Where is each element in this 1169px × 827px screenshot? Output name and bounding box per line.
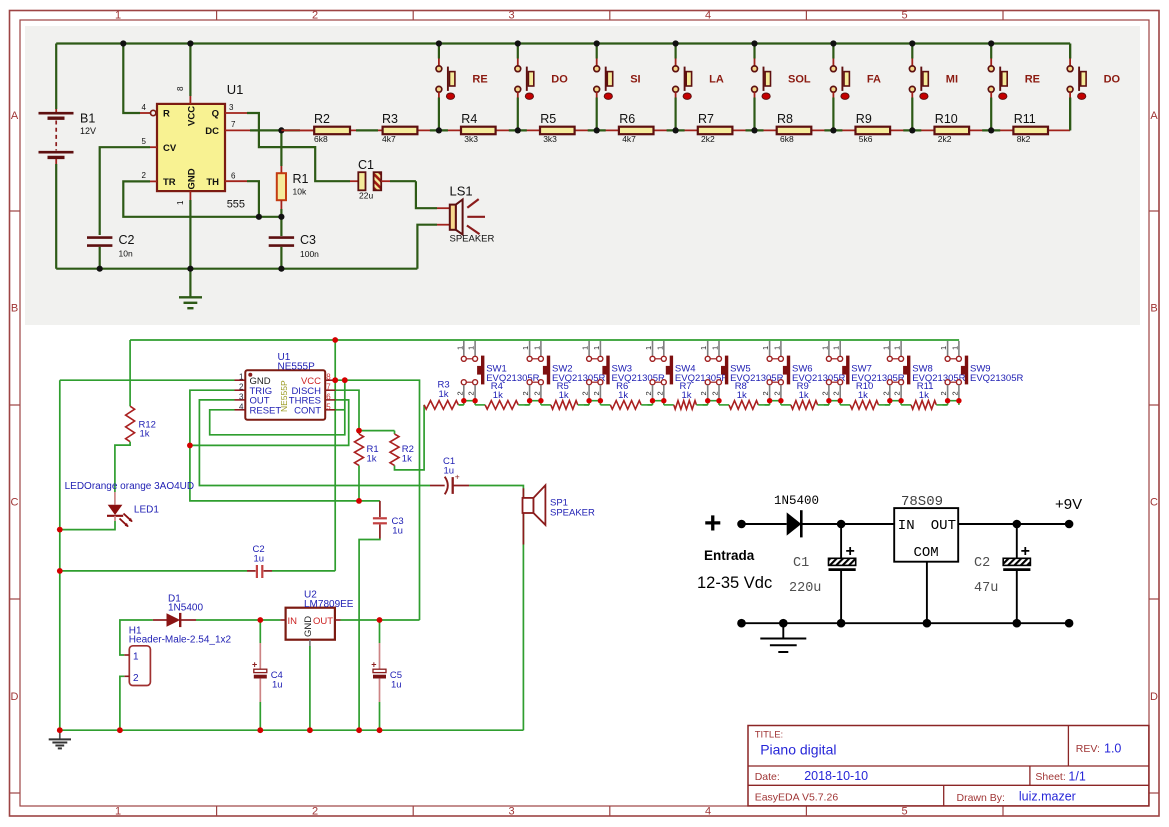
svg-text:1k: 1k	[493, 390, 503, 401]
op-amp / timer U1 555	[157, 104, 225, 191]
svg-text:1k: 1k	[618, 390, 628, 401]
wire R1 bottom	[358, 465, 360, 501]
svg-text:R11: R11	[1014, 112, 1036, 126]
junction	[256, 214, 262, 220]
actuator	[907, 356, 910, 385]
junction	[515, 127, 521, 133]
wire R1 R2 top link	[359, 430, 395, 432]
svg-text:1k: 1k	[682, 390, 692, 401]
svg-text:1: 1	[176, 200, 185, 205]
svg-text:RESET: RESET	[250, 405, 282, 416]
junction	[898, 398, 903, 403]
wire C1 to speaker	[416, 181, 437, 208]
svg-text:3: 3	[508, 10, 514, 22]
svg-text:Entrada: Entrada	[704, 548, 755, 563]
wire GND pin1	[189, 191, 191, 200]
wire DISCH	[336, 390, 360, 430]
sound wave	[467, 199, 478, 208]
junction	[779, 619, 788, 628]
svg-text:8: 8	[176, 86, 185, 91]
svg-text:1k: 1k	[439, 389, 449, 400]
junction	[472, 398, 477, 403]
regulator U2 LM7809EE	[286, 608, 335, 640]
junction	[187, 266, 193, 272]
switch SW7 EVQ21305R	[828, 341, 830, 356]
junction	[461, 398, 466, 403]
svg-text:Sheet:: Sheet:	[1035, 771, 1065, 783]
svg-text:1: 1	[581, 346, 590, 350]
pin 4	[235, 409, 246, 411]
resistor R7 1k	[664, 404, 674, 406]
junction	[988, 127, 994, 133]
pin 3	[235, 399, 246, 401]
svg-text:SPEAKER: SPEAKER	[450, 234, 495, 245]
svg-text:Header-Male-2.54_1x2: Header-Male-2.54_1x2	[129, 635, 232, 646]
svg-text:4: 4	[239, 402, 244, 411]
svg-text:2: 2	[950, 391, 959, 395]
resistor R2 1k	[390, 434, 399, 465]
svg-text:+: +	[455, 471, 460, 481]
svg-text:2: 2	[832, 391, 841, 395]
svg-text:1/1: 1/1	[1068, 770, 1085, 784]
wire	[958, 523, 1069, 525]
pin GND	[309, 640, 311, 646]
wire ground rail	[56, 268, 417, 270]
svg-text:D: D	[11, 691, 19, 703]
svg-text:2: 2	[939, 391, 948, 395]
svg-text:2: 2	[521, 391, 530, 395]
svg-text:1k: 1k	[919, 390, 929, 401]
svg-text:1: 1	[772, 346, 781, 350]
wire vcc pin8	[189, 44, 191, 97]
svg-text:R6: R6	[619, 112, 635, 126]
wire CONT stub	[336, 409, 345, 411]
wire bottom	[742, 622, 1070, 624]
junction	[705, 398, 710, 403]
capacitor C4 1u	[259, 620, 261, 643]
resistor R5 1k	[541, 404, 551, 406]
pin 1	[124, 654, 129, 656]
speaker LS1	[450, 205, 456, 230]
svg-text:2: 2	[312, 10, 318, 22]
svg-text:C: C	[1150, 497, 1158, 509]
svg-text:DO: DO	[551, 74, 568, 86]
svg-text:+: +	[1021, 543, 1030, 560]
svg-text:6k8: 6k8	[314, 134, 328, 144]
svg-text:C1: C1	[793, 556, 809, 571]
junction	[673, 40, 679, 46]
wire pin1 GND	[60, 379, 235, 381]
junction	[988, 40, 994, 46]
svg-text:2: 2	[881, 391, 890, 395]
svg-text:VCC: VCC	[187, 106, 198, 126]
junction	[117, 727, 123, 733]
resistor R8 1k	[719, 404, 729, 406]
svg-text:1: 1	[950, 346, 959, 350]
svg-text:LM7809EE: LM7809EE	[304, 599, 354, 610]
junction	[187, 40, 193, 46]
wire OUT net	[341, 619, 420, 621]
junction	[57, 527, 63, 533]
junction	[737, 619, 746, 628]
svg-text:2: 2	[893, 391, 902, 395]
junction	[187, 443, 193, 449]
svg-text:LEDOrange orange 3AO4UD: LEDOrange orange 3AO4UD	[65, 481, 195, 492]
resistor R12 1k	[129, 340, 131, 406]
svg-text:OUT: OUT	[931, 518, 956, 534]
wire C2 left	[60, 570, 247, 572]
wire OUT net	[199, 400, 430, 486]
svg-text:A: A	[1150, 110, 1158, 122]
wire LED cathode	[60, 521, 115, 530]
sound wave	[467, 226, 480, 235]
junction	[837, 520, 846, 529]
junction	[356, 428, 362, 434]
resistor R6 1k	[600, 404, 610, 406]
wire H1 pin1 to diode	[120, 620, 153, 655]
ground symbol	[782, 623, 784, 638]
speaker SP1	[523, 498, 534, 513]
resistor R10 2k2	[935, 127, 970, 135]
svg-text:FA: FA	[867, 74, 881, 86]
svg-text:1: 1	[644, 346, 653, 350]
junction	[586, 398, 591, 403]
actuator	[606, 356, 609, 385]
svg-text:2: 2	[655, 391, 664, 395]
svg-text:1k: 1k	[858, 390, 868, 401]
wire	[801, 523, 894, 525]
svg-text:R: R	[163, 109, 170, 120]
wire R2 to ladder	[395, 405, 425, 470]
battery B1 12V	[55, 44, 57, 110]
svg-text:2: 2	[467, 391, 476, 395]
wire pins link	[464, 400, 475, 402]
svg-text:6: 6	[326, 392, 331, 401]
resistor R6 4k7	[619, 127, 654, 135]
sound wave	[467, 216, 485, 218]
svg-text:+: +	[252, 660, 257, 670]
junction	[342, 377, 348, 383]
svg-text:4k7: 4k7	[622, 134, 636, 144]
svg-text:2: 2	[772, 391, 781, 395]
svg-text:4: 4	[142, 103, 147, 112]
junction	[923, 619, 932, 628]
junction	[1013, 520, 1022, 529]
actuator	[481, 356, 484, 385]
junction	[356, 498, 362, 504]
wire vcc riser / C2 branch	[334, 340, 336, 571]
capacitor C2 1u	[247, 570, 256, 572]
resistor R1 1k	[355, 434, 364, 465]
resistor R7 2k2	[698, 127, 733, 135]
svg-text:2k2: 2k2	[701, 134, 715, 144]
svg-text:GND: GND	[303, 616, 314, 637]
junction	[332, 337, 338, 343]
connector H1 Header-Male-2.54_1x2	[129, 646, 150, 686]
svg-text:Date:: Date:	[755, 771, 780, 783]
svg-text:RE: RE	[472, 74, 487, 86]
svg-text:1: 1	[881, 346, 890, 350]
svg-text:2: 2	[133, 673, 139, 684]
pin 1	[235, 379, 246, 381]
svg-text:NE555P: NE555P	[278, 361, 316, 372]
junction	[767, 398, 772, 403]
wire speaker return	[417, 225, 437, 269]
svg-text:1: 1	[115, 10, 121, 22]
capacitor C2 10n	[87, 236, 112, 239]
pushbutton DO	[509, 129, 527, 131]
junction	[515, 40, 521, 46]
resistor R4 1k	[475, 404, 485, 406]
wire DC pin7	[225, 129, 250, 131]
svg-text:1u: 1u	[444, 465, 455, 476]
pushbutton FA	[824, 129, 842, 131]
pin OUT	[335, 619, 341, 621]
junction	[278, 214, 284, 220]
svg-text:5k6: 5k6	[859, 134, 873, 144]
junction	[838, 398, 843, 403]
top schematic panel background	[25, 26, 1140, 325]
junction	[377, 617, 383, 623]
svg-text:TR: TR	[163, 177, 176, 188]
svg-text:2: 2	[592, 391, 601, 395]
svg-text:3k3: 3k3	[543, 134, 557, 144]
svg-text:CV: CV	[163, 143, 177, 154]
pushbutton RE	[982, 129, 1000, 131]
wire TH pin6	[225, 180, 247, 182]
resistor R5 3k3	[540, 127, 575, 135]
svg-text:Piano digital: Piano digital	[760, 742, 836, 758]
title block	[748, 726, 1149, 806]
svg-text:R3: R3	[382, 112, 398, 126]
wire COM	[926, 562, 928, 624]
svg-text:1: 1	[893, 346, 902, 350]
svg-text:R2: R2	[314, 112, 330, 126]
junction	[887, 398, 892, 403]
svg-text:10k: 10k	[293, 187, 307, 197]
capacitor C1 220u	[840, 524, 842, 558]
actuator	[787, 356, 790, 385]
ground symbol	[59, 730, 61, 739]
LED LED1	[114, 492, 116, 505]
regulator 78S09	[894, 508, 958, 562]
junction	[909, 127, 915, 133]
svg-text:2: 2	[239, 383, 244, 392]
junction	[1065, 619, 1074, 628]
switch SW5 EVQ21305R	[707, 341, 709, 356]
svg-text:C3: C3	[300, 233, 316, 247]
wire left ground rail	[59, 380, 61, 730]
wire THRES link	[190, 400, 349, 446]
svg-text:1u: 1u	[391, 680, 402, 691]
svg-text:1u: 1u	[272, 680, 283, 691]
svg-text:COM: COM	[914, 545, 939, 561]
svg-text:1: 1	[133, 652, 139, 663]
svg-text:B: B	[11, 303, 18, 315]
junction	[307, 727, 313, 733]
svg-text:C: C	[11, 497, 19, 509]
junction	[716, 398, 721, 403]
svg-text:REV:: REV:	[1076, 743, 1100, 755]
wire C3 to ground	[359, 539, 380, 731]
svg-text:2: 2	[820, 391, 829, 395]
junction	[650, 398, 655, 403]
svg-text:3: 3	[239, 392, 244, 401]
svg-text:2: 2	[699, 391, 708, 395]
svg-text:1: 1	[832, 346, 841, 350]
pushbutton LA	[667, 129, 685, 131]
svg-text:Drawn By:: Drawn By:	[957, 792, 1005, 804]
capacitor C2 47u	[1016, 524, 1018, 558]
svg-text:2k2: 2k2	[938, 134, 952, 144]
svg-text:7: 7	[326, 383, 331, 392]
svg-text:1.0: 1.0	[1104, 742, 1121, 756]
svg-text:3: 3	[229, 103, 234, 112]
svg-text:1: 1	[467, 346, 476, 350]
junction	[956, 398, 961, 403]
pin 7	[325, 389, 335, 391]
resistor R8 6k8	[777, 127, 812, 135]
svg-text:R4: R4	[461, 112, 477, 126]
wire CV pin5	[150, 146, 157, 148]
actuator	[846, 356, 849, 385]
junction	[538, 398, 543, 403]
svg-text:2: 2	[312, 806, 318, 818]
junction	[436, 40, 442, 46]
svg-text:B: B	[1150, 303, 1157, 315]
svg-text:R8: R8	[777, 112, 793, 126]
svg-text:8: 8	[326, 373, 331, 382]
junction	[377, 727, 383, 733]
svg-text:A: A	[11, 110, 19, 122]
svg-text:3k3: 3k3	[464, 134, 478, 144]
svg-text:6k8: 6k8	[780, 134, 794, 144]
svg-text:RE: RE	[1025, 74, 1040, 86]
svg-text:12V: 12V	[80, 126, 96, 136]
reset bubble	[151, 110, 156, 115]
junction	[257, 727, 263, 733]
capacitor C1 22u	[358, 172, 365, 190]
switch SW3 EVQ21305R	[588, 341, 590, 356]
IC U1 NE555P	[245, 370, 325, 419]
wire U2 gnd	[309, 646, 311, 730]
wire pins link	[770, 400, 781, 402]
svg-text:1: 1	[655, 346, 664, 350]
svg-text:NE555P: NE555P	[279, 380, 289, 412]
wire pins link	[530, 400, 541, 402]
resistor R9 5k6	[856, 127, 891, 135]
wire last column	[1069, 44, 1071, 59]
resistor R3 4k7	[383, 127, 418, 135]
pushbutton RE	[430, 129, 448, 131]
junction	[778, 398, 783, 403]
svg-text:5: 5	[326, 402, 331, 411]
pushbutton DO	[1069, 44, 1071, 59]
junction	[661, 398, 666, 403]
svg-text:TITLE:: TITLE:	[755, 730, 784, 741]
wire C2 right	[272, 570, 335, 572]
junction	[57, 568, 63, 574]
svg-text:GND: GND	[187, 168, 198, 189]
wire reset net	[123, 44, 140, 114]
wire H1 pin2 to ground	[120, 676, 124, 730]
svg-text:+9V: +9V	[1055, 496, 1082, 513]
resistor R3 1k	[424, 401, 458, 410]
svg-text:1: 1	[820, 346, 829, 350]
wire Q pin3	[225, 112, 247, 114]
wire TR pin2	[150, 180, 157, 182]
junction	[837, 619, 846, 628]
wire C1 to speaker	[469, 486, 523, 731]
junction	[278, 127, 284, 133]
svg-text:2: 2	[711, 391, 720, 395]
svg-text:1k: 1k	[799, 390, 809, 401]
junction	[436, 127, 442, 133]
svg-text:1: 1	[115, 806, 121, 818]
svg-text:1: 1	[711, 346, 720, 350]
svg-text:1u: 1u	[392, 525, 403, 536]
svg-text:4: 4	[705, 10, 711, 22]
node +9V	[1065, 520, 1074, 529]
pin IN	[280, 619, 285, 621]
svg-text:luiz.mazer: luiz.mazer	[1019, 790, 1076, 804]
pin1 mark	[248, 373, 252, 377]
svg-text:C2: C2	[119, 233, 135, 247]
svg-text:2: 2	[455, 391, 464, 395]
wire	[742, 523, 787, 525]
svg-text:2: 2	[644, 391, 653, 395]
svg-text:SI: SI	[630, 74, 640, 86]
svg-text:OUT: OUT	[313, 616, 333, 627]
svg-text:2: 2	[761, 391, 770, 395]
wire pins link	[890, 400, 901, 402]
pin 2	[124, 675, 129, 677]
junction	[278, 266, 284, 272]
svg-text:1: 1	[592, 346, 601, 350]
capacitor C1 1u	[430, 485, 445, 487]
svg-text:1N5400: 1N5400	[168, 603, 203, 614]
resistor R4 3k3	[461, 127, 496, 135]
svg-text:1k: 1k	[737, 390, 747, 401]
svg-text:R9: R9	[856, 112, 872, 126]
svg-text:4k7: 4k7	[382, 134, 396, 144]
junction	[1013, 619, 1022, 628]
svg-text:100n: 100n	[300, 249, 319, 259]
svg-text:LED1: LED1	[134, 505, 159, 516]
svg-text:DC: DC	[205, 126, 219, 137]
junction	[945, 398, 950, 403]
svg-text:LS1: LS1	[450, 184, 473, 199]
resistor R11 1k	[901, 404, 911, 406]
ground symbol	[189, 269, 191, 297]
svg-text:1N5400: 1N5400	[774, 494, 819, 508]
svg-text:EVQ21305R: EVQ21305R	[970, 373, 1023, 384]
wire pins link	[653, 400, 664, 402]
resistor R2 6k8	[314, 127, 350, 135]
wire pins link	[708, 400, 719, 402]
svg-text:+: +	[371, 660, 376, 670]
junction	[826, 398, 831, 403]
pin 8	[325, 379, 335, 381]
junction	[751, 127, 757, 133]
switch SW1 EVQ21305R	[463, 341, 465, 356]
pin 5	[325, 409, 335, 411]
diode 1N5400	[787, 512, 802, 535]
svg-text:2: 2	[532, 391, 541, 395]
capacitor C5 1u	[379, 620, 381, 643]
node input	[737, 520, 746, 529]
speaker leads	[522, 488, 524, 544]
